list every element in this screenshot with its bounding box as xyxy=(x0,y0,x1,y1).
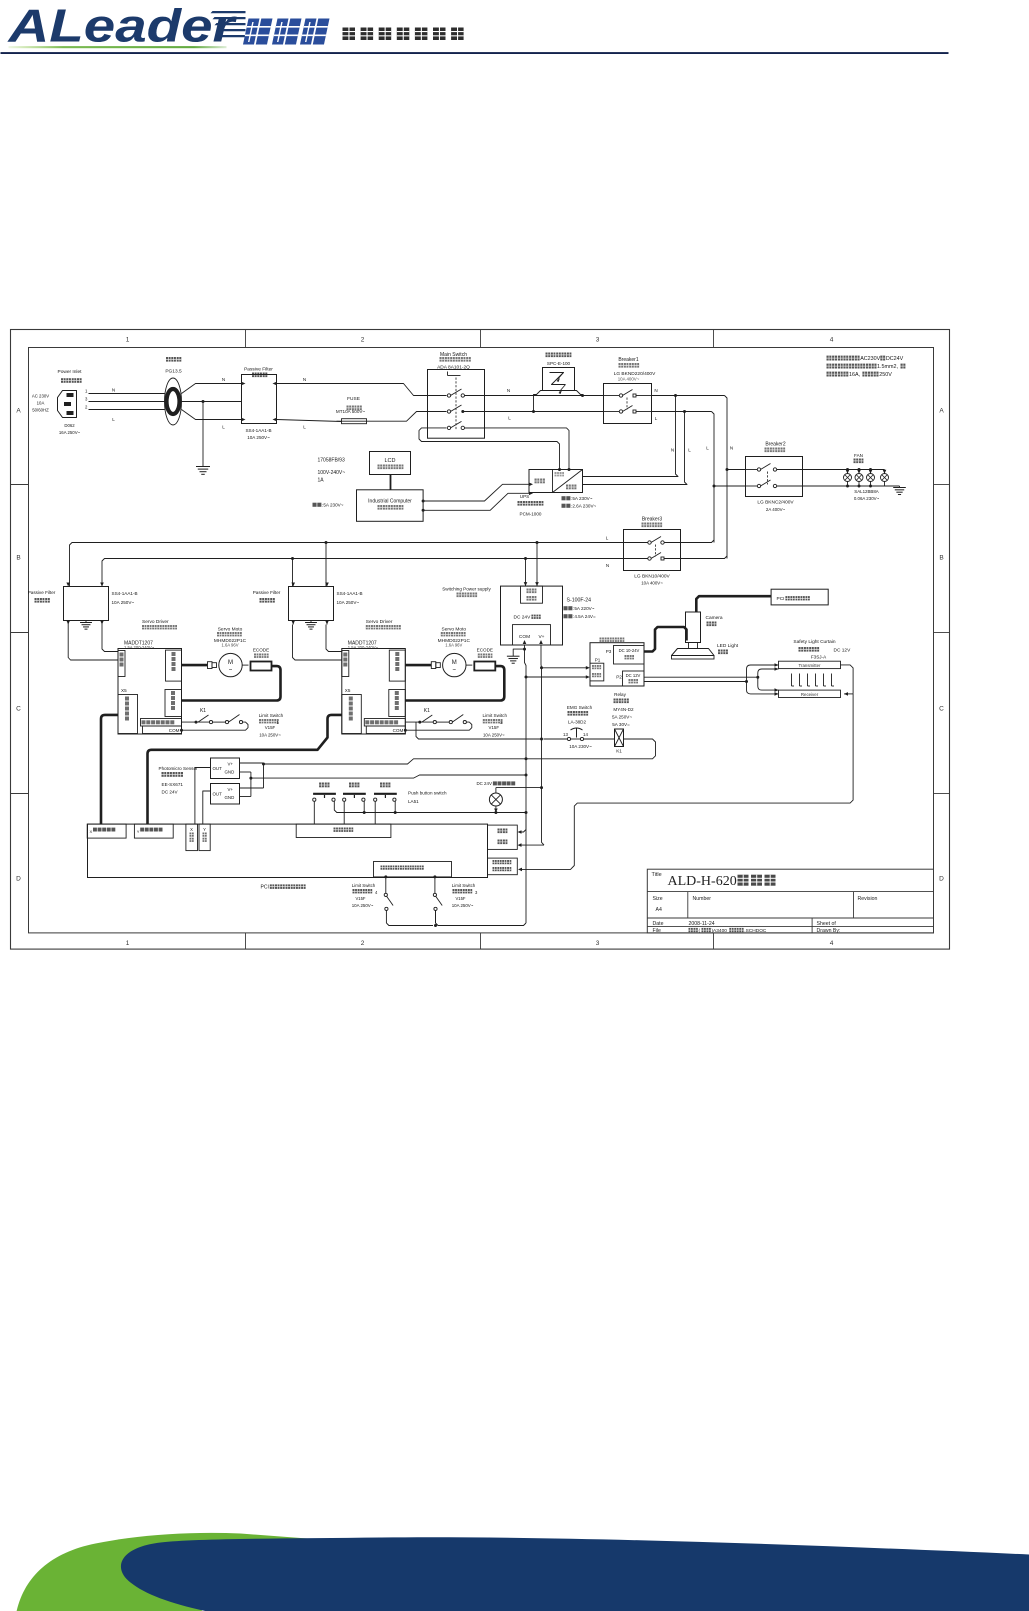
sensor supply wire V+ xyxy=(264,759,527,764)
sensor GND bus wire xyxy=(240,772,253,797)
wire computer to UPS 1 xyxy=(422,484,529,502)
passive filter FL1 SS4-1AA1-B xyxy=(242,367,277,441)
svg-text:13: 13 xyxy=(563,732,568,737)
thick cable X5 X-driver to card xyxy=(101,715,118,824)
svg-text:10A 250V~: 10A 250V~ xyxy=(483,733,505,738)
svg-text:Power Inlet: Power Inlet xyxy=(58,369,83,375)
svg-text:1: 1 xyxy=(126,337,130,344)
svg-text:V15F: V15F xyxy=(355,896,365,901)
svg-text:5A 30V=: 5A 30V= xyxy=(612,722,630,727)
svg-text:~: ~ xyxy=(453,668,457,674)
wire inlet PE to clamp xyxy=(89,401,165,403)
svg-text:250V: 250V xyxy=(879,372,892,378)
svg-text:C: C xyxy=(939,706,944,713)
svg-text:4: 4 xyxy=(830,940,834,947)
surge protector SPC-E-100 xyxy=(534,353,583,412)
push button common bus wire xyxy=(334,801,526,814)
frame zone labels 1-4 A-D xyxy=(16,337,944,948)
svg-text:D: D xyxy=(939,876,944,883)
svg-text:14: 14 xyxy=(583,732,588,737)
svg-text:V+: V+ xyxy=(538,634,544,640)
wire FL2 to X driver xyxy=(68,625,118,661)
svg-text:N: N xyxy=(507,388,510,393)
svg-text:Date: Date xyxy=(653,921,664,927)
servo driver U-Y MADDT1207 with motor M-Y and encoder xyxy=(342,619,508,738)
wire computer to UPS 2 xyxy=(422,493,529,512)
svg-text:COM: COM xyxy=(393,728,404,733)
svg-text::5A 220V~: :5A 220V~ xyxy=(573,606,595,611)
svg-text:Servo Driver: Servo Driver xyxy=(142,619,169,625)
ground at power supply COM xyxy=(507,645,526,663)
svg-text:Safety Light Curtain: Safety Light Curtain xyxy=(793,639,835,645)
svg-text:DC 12V: DC 12V xyxy=(834,648,852,654)
svg-text:Limit Switch: Limit Switch xyxy=(483,713,508,718)
relay coil K1 MY4N-D2 xyxy=(612,692,634,754)
svg-text:10A 400V~: 10A 400V~ xyxy=(641,581,663,586)
wire fuse to switch L xyxy=(373,412,428,422)
svg-text:Limit Switch: Limit Switch xyxy=(259,713,284,718)
wire L bus to filter3 xyxy=(325,543,327,587)
relay return wire xyxy=(526,739,656,759)
wire clamp to filter PE xyxy=(182,400,242,403)
wire V+ rail into card power xyxy=(518,843,545,847)
footer navy swoosh xyxy=(121,1537,1029,1611)
schematic outer border frame xyxy=(11,330,950,950)
svg-text:100V-240V~: 100V-240V~ xyxy=(318,470,346,476)
photomicro sensors EE-SX671 xyxy=(159,758,240,804)
svg-text:V15F: V15F xyxy=(265,725,276,730)
safety light curtain F3SJ-A xyxy=(779,639,852,698)
svg-text:3: 3 xyxy=(596,940,600,947)
svg-text:OUT: OUT xyxy=(213,792,223,797)
breaker2 LG BKNC2/400V xyxy=(746,442,803,513)
curtain outer loop wire xyxy=(745,663,779,696)
svg-text:SPC-E-100: SPC-E-100 xyxy=(547,361,571,366)
cable clamp PG13.5 xyxy=(165,357,182,425)
svg-text:Industrial Computer: Industrial Computer xyxy=(368,499,412,505)
fuse MT 10A 500V xyxy=(336,396,373,424)
svg-text:Receiver: Receiver xyxy=(801,692,819,697)
svg-text:2: 2 xyxy=(361,940,365,947)
limit switch LS4 V15F xyxy=(352,875,393,923)
svg-text:Servo Moto: Servo Moto xyxy=(218,627,243,633)
light source adapter board P1 P2 P3 xyxy=(590,638,644,687)
servo driver U-X MADDT1207 with motor M-X and encoder xyxy=(118,619,284,738)
header green rule xyxy=(9,46,227,48)
svg-text:LA51: LA51 xyxy=(408,799,419,804)
svg-text:N: N xyxy=(222,377,225,382)
svg-text:Limit Switch: Limit Switch xyxy=(352,883,376,888)
svg-text:4: 4 xyxy=(830,337,834,344)
svg-text:Number: Number xyxy=(693,896,712,902)
svg-text:DC24V: DC24V xyxy=(886,356,904,362)
svg-text:F3SJ-A: F3SJ-A xyxy=(811,655,827,660)
svg-text:10A 230V~: 10A 230V~ xyxy=(569,744,592,749)
svg-text:B: B xyxy=(939,555,943,562)
svg-text:UPS: UPS xyxy=(520,494,529,499)
svg-text::2.6A 230V~: :2.6A 230V~ xyxy=(571,504,596,509)
camera with LED light xyxy=(672,612,739,659)
svg-text:N: N xyxy=(303,377,306,382)
wire UPS right pins xyxy=(583,477,688,485)
svg-text:Transmitter: Transmitter xyxy=(798,663,821,668)
svg-text:File: File xyxy=(653,928,661,934)
svg-text:OUT: OUT xyxy=(213,766,223,771)
svg-text:FUSE: FUSE xyxy=(347,396,360,402)
svg-text:X: X xyxy=(190,827,193,832)
svg-text:Y: Y xyxy=(203,827,206,832)
svg-text:N: N xyxy=(730,446,733,451)
thick LED light cable xyxy=(644,627,687,652)
svg-text:DC 12V: DC 12V xyxy=(626,673,641,678)
wire L drop to UPS xyxy=(583,412,692,485)
svg-text:2008-11-24: 2008-11-24 xyxy=(689,921,715,927)
svg-text:ECODE: ECODE xyxy=(477,648,493,653)
svg-text:B: B xyxy=(16,555,20,562)
svg-text:LG BKN10/400V: LG BKN10/400V xyxy=(634,574,670,580)
wire COM to lamp adapter P1 power xyxy=(526,675,590,679)
svg-text:Switching Power supply: Switching Power supply xyxy=(442,587,491,592)
svg-text:K1: K1 xyxy=(424,708,430,714)
wire N drop to UPS xyxy=(583,396,679,477)
passive filter FL2 SS4-1AA1-B xyxy=(28,583,138,630)
company tagline zhongguo guangce linghangzhe xyxy=(343,28,464,41)
svg-text:MY4N-D2: MY4N-D2 xyxy=(613,707,634,712)
svg-text:)A3400: )A3400 xyxy=(711,928,727,934)
wire N bus to filter3 xyxy=(292,559,294,587)
svg-text:Limit Switch: Limit Switch xyxy=(452,883,476,888)
ground at cable clamp xyxy=(196,402,210,475)
industrial computer PCM xyxy=(313,490,424,522)
svg-text:3: 3 xyxy=(596,337,600,344)
svg-text:COM: COM xyxy=(169,728,180,733)
wire L drop to breaker2-3 xyxy=(681,412,746,543)
svg-text:COM: COM xyxy=(519,634,530,640)
wire V+ to lamp adapter P1 input xyxy=(542,666,590,670)
card port safety curtain signal xyxy=(488,858,518,875)
svg-text:10A 400V~: 10A 400V~ xyxy=(618,377,640,382)
PCI motion control card box xyxy=(88,824,488,890)
UPS PCM-1000 xyxy=(518,468,597,517)
LCD display 17058FB/93 xyxy=(318,452,411,484)
svg-text:10A 250V~: 10A 250V~ xyxy=(352,903,374,908)
svg-text:X: X xyxy=(90,829,93,834)
svg-text:2A 400V~: 2A 400V~ xyxy=(766,507,786,512)
svg-text:FAN: FAN xyxy=(854,453,863,458)
svg-text:LG BKNC2/400V: LG BKNC2/400V xyxy=(757,500,794,506)
thick camera video cable xyxy=(696,596,771,612)
svg-text:Push button switch: Push button switch xyxy=(408,791,447,796)
svg-text:L: L xyxy=(112,417,115,422)
limit switch LS3 V15F xyxy=(433,875,478,923)
wire switch pole3 loop to UPS xyxy=(419,428,569,470)
svg-text:16A 250V~: 16A 250V~ xyxy=(59,430,81,435)
EMG wire xyxy=(416,722,615,739)
wire filter to fuse L xyxy=(277,420,342,430)
L bus wire xyxy=(70,541,624,587)
svg-text:A: A xyxy=(939,408,944,415)
company logo ALeader wordmark xyxy=(7,0,245,52)
svg-text:0.06A 230V~: 0.06A 230V~ xyxy=(854,496,880,501)
svg-text:Drawn By:: Drawn By: xyxy=(817,928,841,934)
V+ rail wire xyxy=(540,645,544,845)
EMG switch LA-38D2 xyxy=(563,705,593,749)
svg-text:DC 24V: DC 24V xyxy=(162,790,179,795)
svg-text:K1: K1 xyxy=(616,749,622,754)
card port X origin xyxy=(186,824,198,851)
svg-text:ALD-H-620: ALD-H-620 xyxy=(668,874,737,889)
title block ALD-H-620 xyxy=(647,869,933,934)
passive filter FL3 SS4-1AA1-B xyxy=(253,583,363,630)
svg-text:P2: P2 xyxy=(616,675,622,680)
wire sensor OUT Y xyxy=(203,791,211,824)
svg-text:.SCHDOC: .SCHDOC xyxy=(744,928,767,934)
svg-text:D062: D062 xyxy=(64,423,75,428)
indicator lamp DC24V xyxy=(477,781,542,814)
PCI video capture card xyxy=(771,589,828,605)
thick cable X5 Y-driver to card xyxy=(148,715,342,824)
wire inlet L to clamp xyxy=(89,410,165,423)
svg-text:L: L xyxy=(508,416,511,421)
svg-text:Sheet of: Sheet of xyxy=(817,921,837,927)
svg-text:D: D xyxy=(16,876,21,883)
svg-text:V+: V+ xyxy=(228,762,234,767)
svg-text:L: L xyxy=(688,448,691,453)
wire switch L to breaker1 xyxy=(485,394,604,421)
svg-text:1.5A 200-240V~: 1.5A 200-240V~ xyxy=(124,645,155,650)
wire clamp to filter L xyxy=(182,410,242,430)
svg-text:10A 250V~: 10A 250V~ xyxy=(452,903,474,908)
svg-text:EMG Switch: EMG Switch xyxy=(567,705,593,710)
svg-text:Passive Filter: Passive Filter xyxy=(253,590,281,595)
svg-text:A: A xyxy=(16,408,21,415)
card port keypad signal xyxy=(296,824,391,837)
svg-text::4.5A 24V=: :4.5A 24V= xyxy=(573,614,596,619)
svg-text:X5: X5 xyxy=(345,688,351,693)
svg-text:10A 250V~: 10A 250V~ xyxy=(337,600,360,605)
svg-text:GND: GND xyxy=(225,795,235,800)
power inlet D062 16A 250V xyxy=(32,369,88,435)
wire DC12V to curtain feed2 xyxy=(644,681,747,683)
svg-text:PCI: PCI xyxy=(261,885,269,891)
svg-text:1A: 1A xyxy=(318,478,325,484)
svg-text:50/60HZ: 50/60HZ xyxy=(32,408,49,413)
footer green swoosh xyxy=(17,1533,321,1611)
svg-text:V15F: V15F xyxy=(489,725,500,730)
svg-text:MT10A 500V~: MT10A 500V~ xyxy=(336,409,366,414)
wire LCD to computer xyxy=(390,475,392,490)
svg-text:1.5A 200-240V~: 1.5A 200-240V~ xyxy=(348,645,379,650)
curtain inner loop wire xyxy=(756,667,778,692)
svg-text:L: L xyxy=(303,425,306,430)
svg-text:AC230V: AC230V xyxy=(860,356,880,362)
card port Y driver signal xyxy=(134,824,173,838)
sensor supply wire GND xyxy=(251,774,528,779)
svg-text:Camera: Camera xyxy=(706,615,723,621)
wire DC12V to curtain feed1 xyxy=(644,676,758,678)
wire breaker1 L out xyxy=(652,410,712,421)
svg-text:C: C xyxy=(16,706,21,713)
svg-text:N: N xyxy=(654,388,657,393)
N bus wire xyxy=(102,557,624,587)
wire N drop to breaker2-3 xyxy=(681,396,746,559)
card limit signal box xyxy=(374,862,452,877)
svg-text:Passive Filter: Passive Filter xyxy=(244,367,273,373)
svg-text:1.6A 96V: 1.6A 96V xyxy=(222,643,239,648)
svg-text::5A 230V~: :5A 230V~ xyxy=(571,496,593,501)
svg-text:LED Light: LED Light xyxy=(717,643,739,649)
svg-text:Breaker1: Breaker1 xyxy=(618,357,639,363)
svg-text:SS4-1AA1-B: SS4-1AA1-B xyxy=(337,591,363,596)
safety signal long wire xyxy=(518,694,853,871)
wire FL3 to Y driver xyxy=(293,625,342,661)
main switch ADA 8A101-2Q xyxy=(428,352,485,438)
svg-text:L: L xyxy=(655,416,658,421)
wire sensor OUT X xyxy=(195,768,211,825)
svg-text:PCM-1000: PCM-1000 xyxy=(520,512,542,517)
svg-text:Photomicro Sensor: Photomicro Sensor xyxy=(159,766,199,771)
svg-text:10A 250V~: 10A 250V~ xyxy=(259,733,281,738)
svg-text:Y: Y xyxy=(137,829,140,834)
push buttons pause load test LA51 xyxy=(313,783,447,825)
svg-text:1: 1 xyxy=(126,940,130,947)
svg-text:LCD: LCD xyxy=(384,458,395,464)
svg-text:DC 24V: DC 24V xyxy=(477,781,492,786)
note text top-right xyxy=(827,356,906,378)
svg-text:N: N xyxy=(112,388,115,393)
header navy rule xyxy=(1,52,949,54)
svg-text:Revision: Revision xyxy=(858,896,878,902)
svg-text:5A 250V~: 5A 250V~ xyxy=(612,715,632,720)
card port Y origin xyxy=(199,824,210,851)
wire inlet N to clamp xyxy=(89,388,165,394)
svg-text:A4: A4 xyxy=(656,907,662,913)
svg-text:ECODE: ECODE xyxy=(253,648,269,653)
sensor V+ bus wire xyxy=(240,763,266,789)
svg-text:N: N xyxy=(671,448,674,453)
limit switch return wire xyxy=(386,911,526,928)
svg-text:Passive Filter: Passive Filter xyxy=(28,590,56,595)
svg-text:Relay: Relay xyxy=(614,692,626,697)
svg-text:DC 10-24V: DC 10-24V xyxy=(619,648,640,653)
svg-text:PG13.5: PG13.5 xyxy=(165,369,182,375)
wire clamp to filter N xyxy=(182,377,242,394)
svg-text:V15F: V15F xyxy=(455,896,465,901)
svg-text:P3: P3 xyxy=(606,649,612,654)
svg-text:Servo Moto: Servo Moto xyxy=(442,627,467,633)
svg-text:17058FB/93: 17058FB/93 xyxy=(318,458,345,464)
svg-text:1.5mm2,: 1.5mm2, xyxy=(877,364,898,370)
curtain right wire xyxy=(841,665,854,696)
svg-text:P1: P1 xyxy=(595,658,601,663)
svg-text:L: L xyxy=(222,425,225,430)
svg-text:LA-38D2: LA-38D2 xyxy=(568,720,587,725)
svg-text:S-100F-24: S-100F-24 xyxy=(567,598,592,604)
wire breaker1 N out xyxy=(652,388,725,397)
frame zone tick marks xyxy=(11,330,950,950)
svg-text:V+: V+ xyxy=(228,787,234,792)
breaker1 LG BKND220/400V xyxy=(604,357,657,424)
svg-text:2: 2 xyxy=(361,337,365,344)
svg-text:L: L xyxy=(606,536,609,541)
svg-text:10A 250V~: 10A 250V~ xyxy=(112,600,135,605)
svg-text:ALeader: ALeader xyxy=(7,0,237,52)
COM rail wire xyxy=(525,649,528,923)
breaker3 LG BKN10/400V xyxy=(606,517,681,586)
switching power supply S-100F-24 xyxy=(442,586,596,645)
svg-text:EE-SX671: EE-SX671 xyxy=(162,782,184,787)
schematic inner border frame xyxy=(29,348,934,933)
wire COM rail into card input xyxy=(518,813,527,834)
svg-text:~: ~ xyxy=(229,668,233,674)
fan group SAL12BB8A xyxy=(803,453,906,501)
svg-text:Breaker2: Breaker2 xyxy=(765,442,786,448)
svg-text:Title: Title xyxy=(652,872,662,878)
svg-text:Breaker3: Breaker3 xyxy=(642,517,663,523)
svg-text:M: M xyxy=(228,660,233,666)
svg-text:M: M xyxy=(452,660,457,666)
svg-text:GND: GND xyxy=(225,770,235,775)
svg-text:16A,: 16A, xyxy=(849,372,861,378)
svg-text:SAL12BB8A: SAL12BB8A xyxy=(854,489,878,494)
svg-text:10A: 10A xyxy=(37,401,45,406)
wire filter to switch N xyxy=(277,377,428,396)
card port power input xyxy=(488,825,518,849)
svg-text:1.6A 96V: 1.6A 96V xyxy=(445,643,462,648)
svg-text:10A 250V~: 10A 250V~ xyxy=(247,435,270,440)
svg-text:X5: X5 xyxy=(121,688,127,693)
wire buses to power supply xyxy=(524,543,539,587)
svg-text:AC 230V: AC 230V xyxy=(32,394,49,399)
svg-text:Size: Size xyxy=(653,896,663,902)
svg-text:K1: K1 xyxy=(200,708,206,714)
wire switch N to breaker1 xyxy=(485,388,604,396)
svg-text:PCI: PCI xyxy=(777,596,785,602)
svg-text:DC 24V: DC 24V xyxy=(514,615,532,621)
svg-text:L: L xyxy=(706,446,709,451)
company logo Chinese name A-Li-De xyxy=(243,19,330,45)
svg-text:Servo Driver: Servo Driver xyxy=(366,619,393,625)
card port X driver signal xyxy=(87,824,126,838)
svg-text:SS4-1AA1-B: SS4-1AA1-B xyxy=(245,428,271,433)
svg-text::5A 230V~: :5A 230V~ xyxy=(322,503,344,508)
svg-text:N: N xyxy=(606,563,609,568)
svg-text:SS4-1AA1-B: SS4-1AA1-B xyxy=(112,591,138,596)
